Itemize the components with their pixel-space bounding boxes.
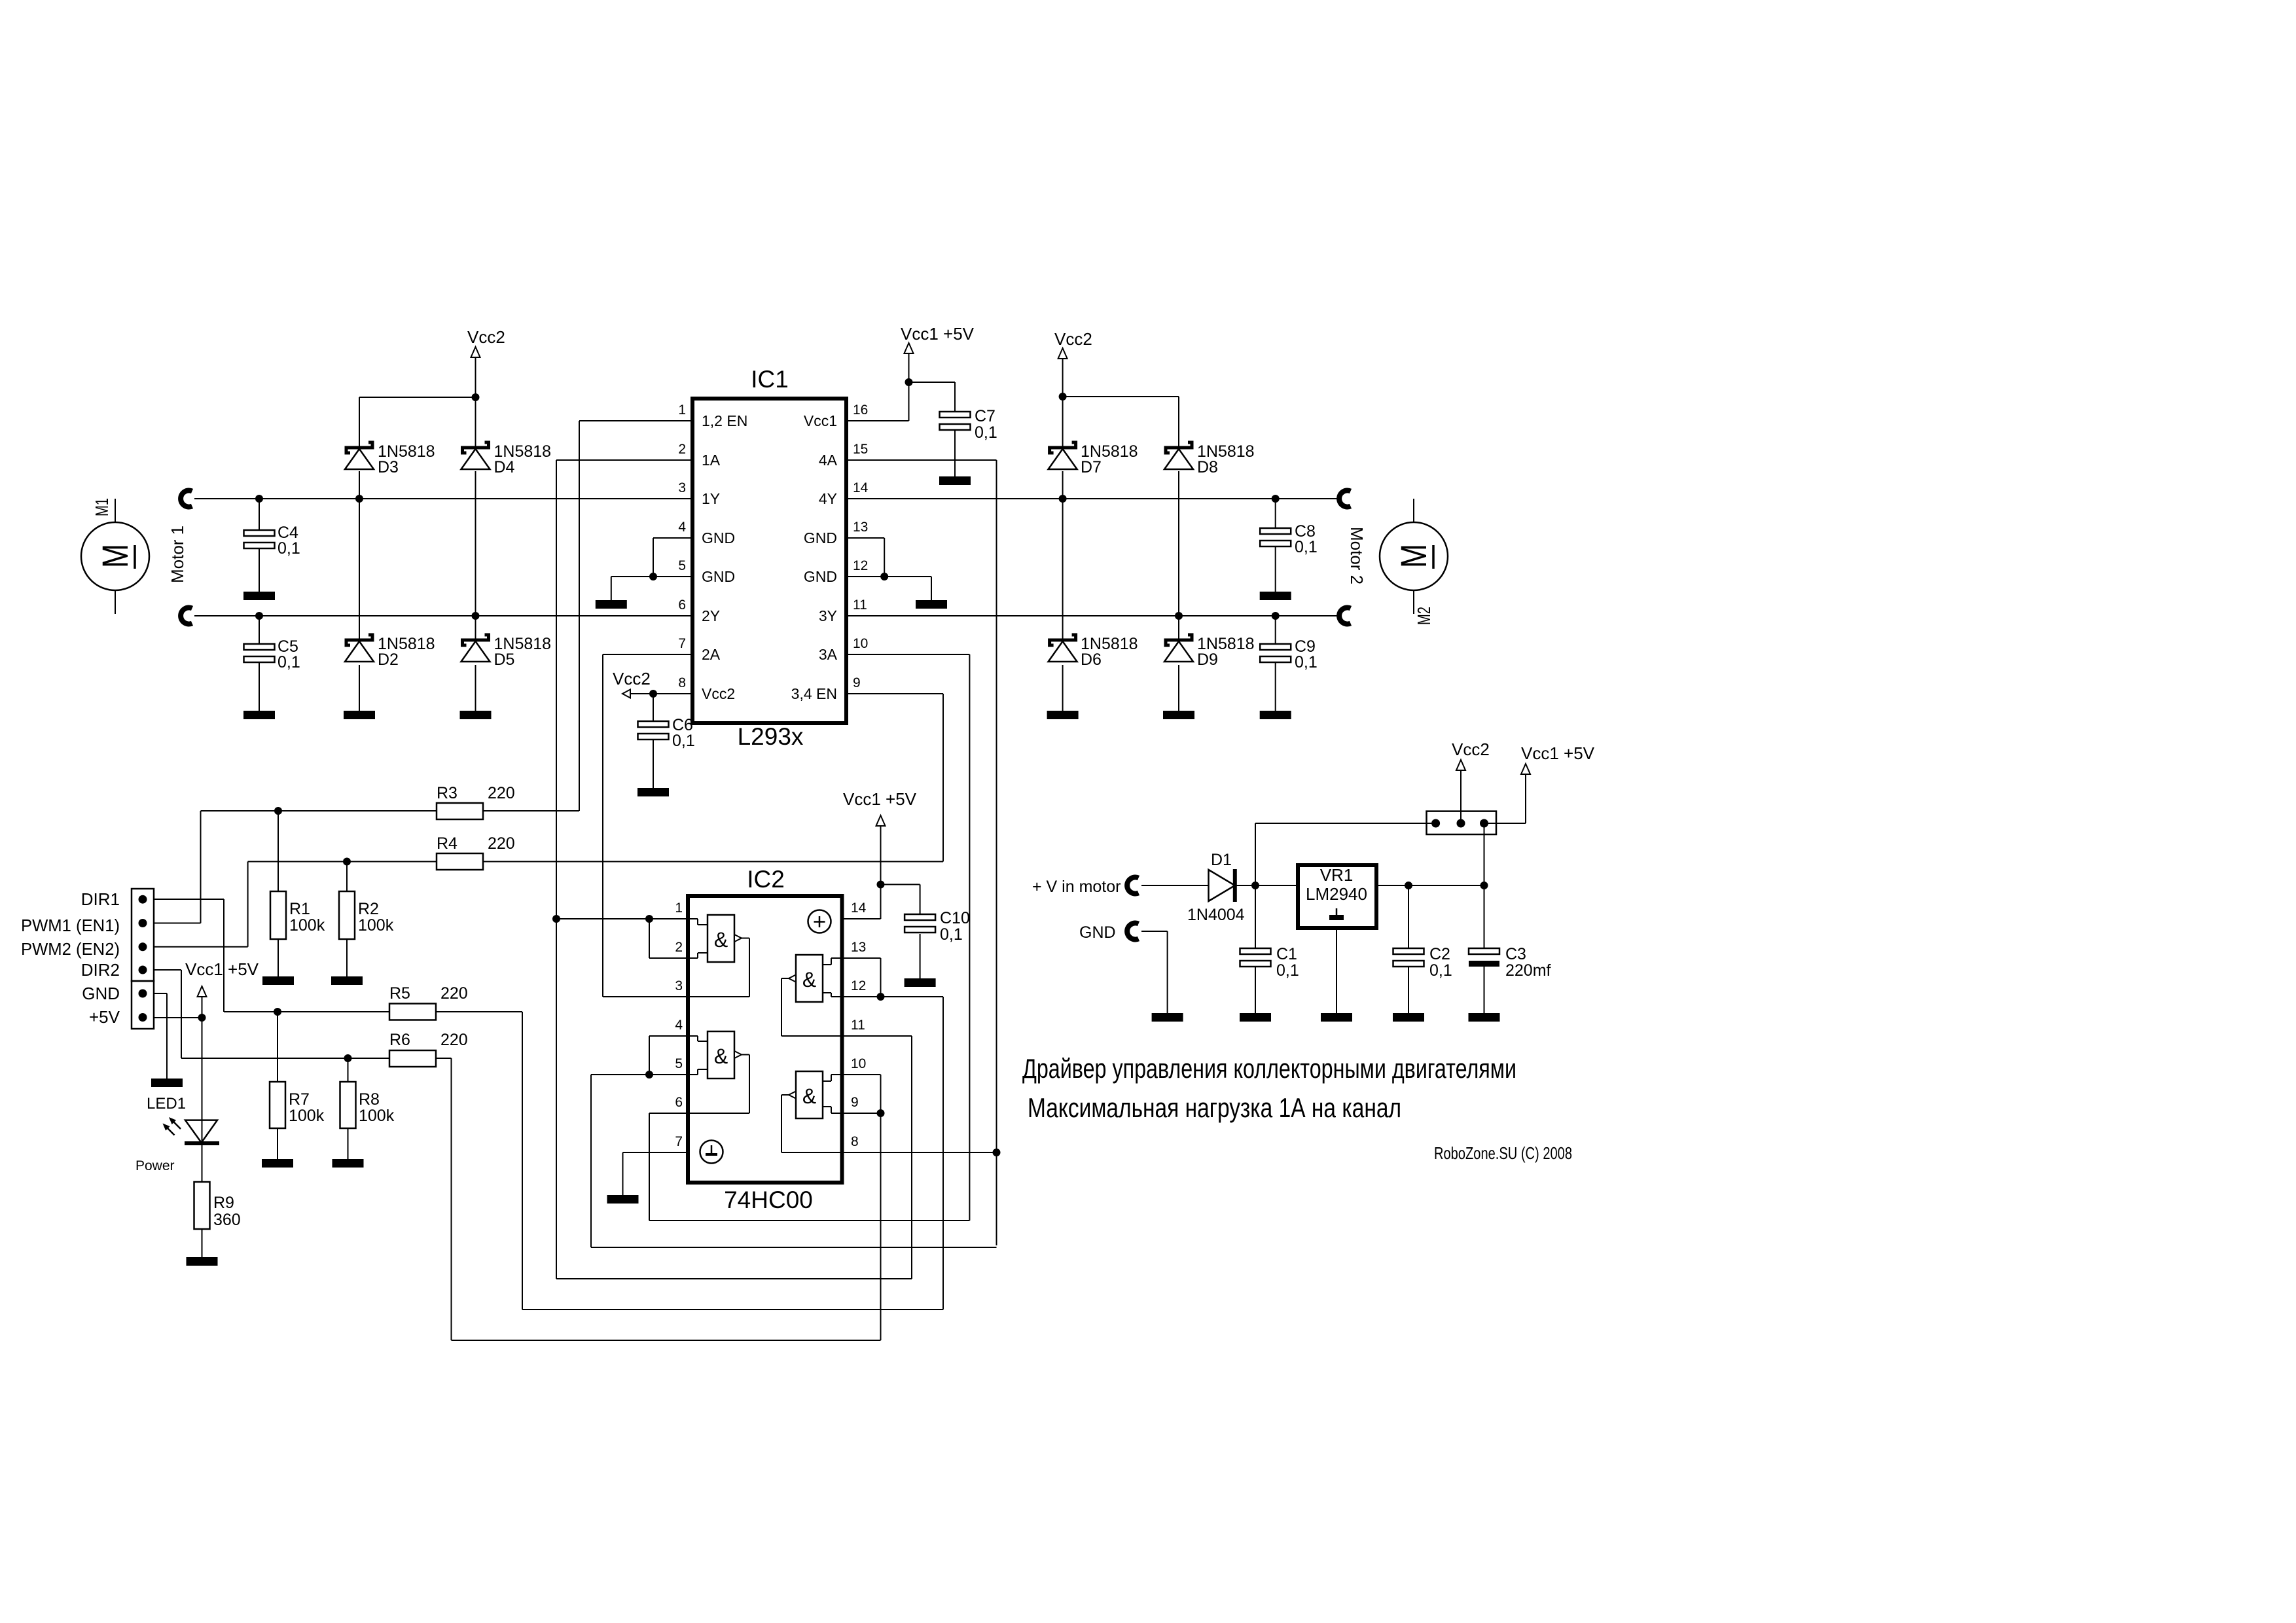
svg-text:M: M [94,544,135,568]
svg-text:7: 7 [678,636,686,651]
power symbol Vcc2 (top right) [1058,348,1067,359]
wire IC1 pin13 gnd [846,538,884,577]
svg-text:3Y: 3Y [819,607,837,624]
wire GND hook to ground [1141,931,1168,1013]
wire VR1 ground [1336,928,1337,1013]
label M2 [1414,607,1434,625]
wire Vcc2 arrow jumper [1460,771,1462,823]
svg-text:0,1: 0,1 [1295,538,1318,556]
connector 6-pin block [132,889,154,1029]
svg-text:Vcc1 +5V: Vcc1 +5V [1521,743,1595,763]
svg-text:C7: C7 [975,407,996,425]
ground R2 [331,976,363,985]
IC1 pin numbers and labels [678,402,868,702]
svg-text:PWM2 (EN2): PWM2 (EN2) [21,939,120,959]
wire D4 anode to 2Y [475,471,476,640]
junction [355,495,363,503]
svg-text:0,1: 0,1 [975,423,997,442]
wire IC1 pin9 to R4 [846,694,943,862]
wire LED1 cathode to R9 [202,1143,203,1182]
wire 4Y to D6 cathode [1062,499,1064,640]
junction [274,1008,281,1016]
ground C2 [1393,1013,1424,1022]
svg-text:14: 14 [853,480,869,495]
diode D6 [1049,635,1077,662]
label D2 [378,635,435,669]
wire DIR2 to R6 [154,970,181,1058]
svg-text:Vcc1 +5V: Vcc1 +5V [185,959,259,979]
wire C8 leads [1275,499,1276,592]
ground IC1 pin5 [596,600,627,609]
NAND gate 1 (IC2 pins 1,2,3) [688,915,749,997]
label Motor 1 [168,526,187,583]
wire IC1 pin1 to R3 [579,421,692,811]
resistor R3 [437,803,483,819]
svg-text:6: 6 [675,1095,683,1110]
junction [877,993,885,1001]
ground C4 [243,592,275,600]
wire C5 leads [259,616,260,711]
connector hook 4Y [1339,491,1350,507]
resistor R9 [194,1182,210,1229]
jumper pin 2 [1457,819,1465,828]
capacitor C6 [638,721,669,740]
label D9 [1197,635,1255,669]
wire C9 leads [1275,616,1276,711]
connector pin GND [139,990,147,998]
LED LED1 [163,1117,220,1143]
svg-text:11: 11 [853,597,867,613]
wire D9 anode to ground [1178,665,1179,711]
diode D9 [1164,635,1193,662]
svg-text:+5V: +5V [89,1007,120,1027]
svg-text:0,1: 0,1 [278,539,300,558]
resistor R1 [270,891,286,939]
wire R6 row [181,1058,452,1340]
label D1 [1187,851,1245,924]
label D8 [1197,442,1255,476]
svg-text:0,1: 0,1 [1429,961,1452,980]
label Vcc2 jumper [1452,740,1490,759]
wire Vcc2 arrow to D4 [475,358,476,449]
junction [1251,882,1259,889]
junction [645,1071,653,1079]
svg-text:R9: R9 [213,1194,234,1212]
wire jumper feed [1255,823,1436,885]
IC2 power marker [808,910,831,933]
label R5 [389,984,468,1003]
power symbol Vcc1 +5V (connector) [198,986,207,997]
wire R2 leads [346,862,348,977]
label 74HC00 [724,1186,813,1213]
svg-text:3A: 3A [819,646,838,663]
wire D1 to VR1 input [1235,885,1298,886]
label Vcc1 +5V jumper [1521,743,1595,763]
wire IC1 pin12 gnd [846,577,931,600]
resistor R6 [389,1050,436,1067]
label D7 [1081,442,1138,476]
junction [198,1014,206,1022]
wire C2 leads [1408,885,1409,1013]
wire IC2 pin12 row to R5 net [842,997,944,1310]
svg-text:IC2: IC2 [747,866,785,893]
wire motor1 stubs [115,499,116,614]
svg-text:D7: D7 [1081,458,1102,476]
svg-text:13: 13 [851,940,866,955]
svg-text:1,2 EN: 1,2 EN [702,412,747,429]
wire +V in motor to D1 [1141,885,1208,886]
wire motor2 stubs [1413,499,1414,614]
label C9 [1295,637,1318,671]
wire 3Y row (IC1 pin11 to motor2 bottom) [846,615,1341,616]
wire R4 row [248,861,943,863]
wire IC1 pin4 gnd [653,538,692,577]
junction [877,1109,885,1117]
NAND gate 4 (IC2 pins 10,9,8) [781,1071,842,1152]
connector hook 1Y [181,491,192,507]
label LED1 [147,1095,186,1113]
wire +5V pin row [154,995,202,1018]
wire IC2 pin7 gnd [623,1152,689,1195]
wire IC1 pin15 to IC2 pin8 node [846,460,997,1245]
svg-text:M2: M2 [1414,607,1434,625]
ground C8 [1260,592,1291,600]
junction [472,612,480,620]
connector hook 2Y [181,608,192,624]
wire R9 to ground [202,1229,203,1257]
label D5 [494,635,552,669]
label C3 [1505,945,1551,980]
junction [552,915,560,923]
svg-text:0,1: 0,1 [1276,961,1299,980]
label D4 [494,442,552,476]
svg-text:RoboZone.SU (C) 2008: RoboZone.SU (C) 2008 [1434,1143,1572,1163]
svg-text:4A: 4A [819,452,838,469]
diode D4 [461,442,490,469]
wire 4Y row (IC1 pin14 to motor2 top) [846,498,1341,499]
capacitor C7 [940,412,971,430]
svg-text:10: 10 [851,1056,866,1071]
label Power [135,1158,175,1173]
label Vcc2 pin8 [613,669,651,688]
resistor R8 [340,1082,356,1128]
wire 1Y to D2 cathode [359,499,360,640]
svg-text:Motor 1: Motor 1 [168,526,187,583]
diode D3 [345,442,374,469]
connector pin DIR1 [139,895,147,904]
junction [1175,612,1183,620]
label D3 [378,442,435,476]
svg-text:GND: GND [82,984,120,1003]
label M1 [92,498,112,516]
wire C7 ground lead [954,430,956,476]
label PWM2 (EN2) [21,939,120,959]
svg-text:R6: R6 [389,1031,410,1049]
junction [649,573,657,580]
wire jumper right pin down [1484,823,1485,885]
svg-text:9: 9 [851,1095,859,1110]
title line 2 [1028,1092,1401,1123]
wire D8 anode to 3Y [1178,471,1179,640]
connector pin PWM2 [139,942,147,951]
svg-text:10: 10 [853,636,868,651]
svg-text:R8: R8 [359,1090,380,1109]
svg-text:14: 14 [851,901,867,916]
credit RoboZone [1434,1143,1572,1163]
svg-text:8: 8 [851,1134,859,1149]
svg-text:M1: M1 [92,498,112,516]
wire IC1 pin8 Vcc2 stub [630,693,692,694]
wire 2Y row (motor1 bottom to IC1 pin 6) [194,615,692,616]
label Motor 2 [1347,527,1367,584]
svg-text:2: 2 [675,940,683,955]
svg-text:R7: R7 [289,1090,310,1109]
label R2 [358,900,394,935]
svg-text:3: 3 [675,978,683,993]
ground IC1 pin12 [916,600,947,609]
svg-text:D9: D9 [1197,651,1218,669]
svg-text:D6: D6 [1081,651,1102,669]
svg-text:Драйвер управления коллекторны: Драйвер управления коллекторными двигате… [1022,1053,1516,1084]
junction [1059,393,1067,401]
label Vcc1 +5V C7 [901,324,975,344]
svg-text:IC1: IC1 [751,366,789,393]
jumper pin 1 [1431,819,1440,828]
capacitor C3 (electrolytic) [1469,948,1499,967]
label Vcc2 top left [467,327,505,347]
power symbol Vcc1 +5V (IC2) [876,815,886,826]
capacitor C2 [1393,948,1424,967]
wire D5 anode to ground [475,665,476,711]
label DIR1 [81,889,120,909]
wire IC2 pin8 row [842,1152,997,1153]
capacitor C8 [1260,528,1291,546]
junction [1405,882,1412,889]
svg-text:1: 1 [675,901,683,916]
svg-text:GND: GND [702,529,735,546]
diode D8 [1164,442,1193,469]
junction [880,573,888,580]
ground D6 [1047,711,1079,719]
svg-text:D4: D4 [494,458,515,476]
wire C10 ground lead [920,934,921,978]
power symbol Vcc2 (IC1 pin8) [622,690,653,698]
wire Vcc2 rail to D3 [359,397,476,448]
ground R9 [187,1257,218,1266]
motor M2 [1380,522,1448,590]
svg-text:360: 360 [213,1211,241,1229]
label PWM1 (EN1) [21,916,120,935]
ground D2 [344,711,375,719]
NAND gate 3 (IC2 pins 13,12,11) [781,955,842,1036]
label R7 [289,1090,325,1125]
title line 1 [1022,1053,1516,1084]
svg-text:Vcc2: Vcc2 [1452,740,1490,759]
wire bottom run R5-pins13,12 [522,1309,943,1310]
label L293x [738,723,804,750]
ground C7 [939,476,971,485]
svg-text:Vcc1 +5V: Vcc1 +5V [843,789,917,809]
wire IC2 pin1 row [556,918,688,919]
wire IC2 pin10 tie [842,1075,881,1113]
svg-text:2A: 2A [702,646,721,663]
ground GND input [1152,1013,1183,1022]
svg-text:&: & [802,968,816,991]
label C4 [278,524,300,558]
svg-text:2Y: 2Y [702,607,720,624]
label C7 [975,407,997,442]
svg-text:7: 7 [675,1134,683,1149]
ground R7 [262,1159,293,1168]
svg-text:GND: GND [804,529,837,546]
wire D6 anode to ground [1062,665,1064,711]
wire R3 row [201,810,580,811]
svg-text:12: 12 [851,978,866,993]
connector pin PWM1 [139,919,147,927]
capacitor C9 [1260,644,1291,662]
svg-text:220mf: 220mf [1505,961,1551,980]
wire IC2 pin14 Vcc1 [842,824,920,919]
junction [877,881,885,889]
svg-text:PWM1 (EN1): PWM1 (EN1) [21,916,120,935]
IC U1 L293x box [692,399,846,723]
wire IC2 pin2 tie [649,919,688,958]
wire IC1 pin2 column (1A net) [556,460,692,1279]
svg-text:4: 4 [675,1018,683,1033]
svg-text:D8: D8 [1197,458,1218,476]
svg-text:4: 4 [678,520,686,535]
wire IC1 pin16 Vcc1 [846,351,955,421]
svg-text:0,1: 0,1 [1295,653,1318,671]
ground GND pin [151,1079,183,1087]
wire Vcc1 +5V arrow right [1484,775,1526,823]
junction [1272,495,1280,503]
label D6 [1081,635,1138,669]
svg-text:3,4 EN: 3,4 EN [791,685,837,702]
svg-text:R5: R5 [389,984,410,1003]
label Vcc2 top right [1054,329,1092,349]
wire 1Y row (motor1 top to IC1 pin 3) [194,498,692,499]
svg-text:Power: Power [135,1158,175,1173]
NAND gate 2 (IC2 pins 4,5,6) [688,1031,749,1113]
ground VR1 [1321,1013,1352,1022]
wire LED1 anode [202,1018,203,1143]
svg-text:9: 9 [853,675,861,690]
label GND input [1079,923,1116,942]
svg-text:15: 15 [853,442,868,457]
svg-text:100k: 100k [359,1107,395,1125]
wire DIR1 to R5 [154,899,224,1012]
junction [1272,612,1280,620]
junction [343,858,351,866]
resistor R5 [389,1004,436,1020]
wire R7 leads [277,1012,278,1159]
svg-text:11: 11 [851,1018,865,1033]
svg-text:GND: GND [702,568,735,585]
wire bottom run pin10-pin6 [649,1220,969,1221]
label R9 [213,1194,241,1229]
junction [1480,882,1488,889]
wire D7 anode to 4Y [1062,471,1064,499]
svg-text:+ V in motor: + V in motor [1032,878,1121,896]
svg-text:LM2940: LM2940 [1306,884,1367,904]
label C8 [1295,522,1318,556]
svg-text:100k: 100k [358,916,394,935]
svg-text:VR1: VR1 [1320,865,1354,885]
svg-text:2: 2 [678,442,686,457]
VR1 ground pin symbol [1329,908,1344,920]
wire IC2 pin11 net [842,1036,912,1279]
wire C3 leads [1484,885,1485,1013]
label + V in motor [1032,878,1121,896]
power symbol Vcc1 +5V (jumper) [1521,764,1530,774]
label R4 [437,834,515,853]
connector pin DIR2 [139,966,147,974]
IC U2 74HC00 box [688,896,842,1183]
wire bottom run R6-pins10,9 [452,1340,881,1341]
svg-text:0,1: 0,1 [672,732,695,750]
capacitor C4 [244,530,275,548]
label DIR2 [81,960,120,980]
junction [649,690,657,698]
ground C9 [1260,711,1291,719]
power symbol Vcc2 (top left) [471,347,480,357]
svg-text:5: 5 [678,558,686,573]
wire IC1 pin7 to IC2 pin3 [603,654,692,997]
label IC2 [747,866,785,893]
svg-text:C2: C2 [1429,945,1450,963]
ground C3 [1469,1013,1500,1022]
svg-text:GND: GND [804,568,837,585]
svg-text:5: 5 [675,1056,683,1071]
svg-text:Vcc2: Vcc2 [467,327,505,347]
svg-text:Vcc2: Vcc2 [613,669,651,688]
svg-text:220: 220 [440,1031,468,1049]
junction [472,393,480,401]
svg-text:220: 220 [488,784,515,802]
svg-text:100k: 100k [289,1107,325,1125]
svg-text:4Y: 4Y [819,490,837,507]
label C1 [1276,945,1299,980]
svg-text:C1: C1 [1276,945,1297,963]
resistor R2 [339,891,355,939]
label +5V [89,1007,120,1027]
svg-text:&: & [714,928,728,952]
wire C1 leads [1255,885,1256,1013]
svg-text:100k: 100k [289,916,325,935]
wire Vcc2 rail right to D7/D8 [1063,359,1179,448]
svg-text:74HC00: 74HC00 [724,1186,813,1213]
capacitor C10 [905,914,935,933]
junction [645,915,653,923]
label IC1 [751,366,789,393]
svg-text:D2: D2 [378,651,399,669]
wire IC2 pin13 tie [842,958,881,997]
svg-text:D1: D1 [1211,851,1232,869]
wire D3 anode to 1Y [359,471,360,499]
svg-text:16: 16 [853,402,868,418]
diode D2 [345,635,374,662]
label C10 [940,909,970,944]
svg-text:Vcc1 +5V: Vcc1 +5V [901,324,975,344]
label R8 [359,1090,395,1125]
power symbol Vcc2 (jumper) [1456,760,1465,770]
IC2 pin numbers [675,901,866,1149]
svg-text:&: & [714,1044,728,1068]
svg-text:&: & [802,1084,816,1108]
label Vcc1 +5V IC2 [843,789,917,809]
svg-text:8: 8 [678,675,686,690]
